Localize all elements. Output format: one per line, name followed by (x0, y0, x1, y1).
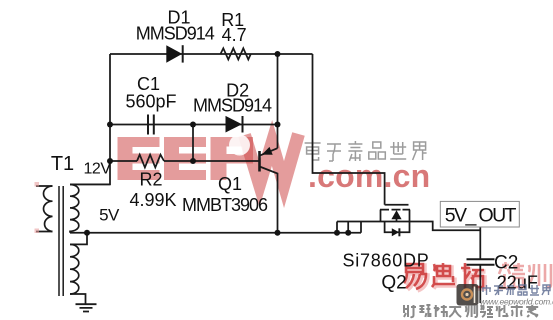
svg-text:5V: 5V (99, 206, 120, 225)
node dot source pin2 (345, 230, 351, 236)
transformer terminal marks pink (35, 182, 40, 187)
mosfet Q2 body arrow (391, 210, 401, 219)
node dot source pin1 (334, 230, 340, 236)
mosfet Q2 channel segments (380, 209, 410, 211)
wire below C2 (479, 265, 481, 304)
transformer T1 primary winding (44, 186, 53, 232)
transistor Q1 base bar (258, 151, 261, 172)
node dot D2 cathode (275, 122, 281, 128)
svg-text:12V: 12V (84, 161, 112, 178)
svg-text:5V_ OUT: 5V_ OUT (445, 205, 517, 227)
svg-text:Q2: Q2 (381, 273, 406, 294)
capacitor C1 (148, 115, 154, 135)
ground (76, 304, 97, 311)
node dot C1-D2 mid (190, 122, 196, 128)
watermark letter W (245, 134, 299, 185)
wire secondary bottom to ground (70, 294, 86, 304)
node dot base row mid (190, 158, 196, 164)
watermark letter E1 (118, 137, 160, 180)
resistor R1 (221, 48, 251, 59)
wire left rail (70, 54, 110, 184)
svg-text:4.99K: 4.99K (129, 190, 176, 210)
transistor Q1 emitter (260, 148, 278, 156)
wire vertical node x277 (277, 54, 279, 148)
mosfet Q2 body diode triangle (392, 228, 399, 236)
watermark EEPW letters (118, 134, 299, 185)
wire secondary top to 12V (70, 183, 110, 185)
wire output to C2 (479, 227, 481, 259)
svg-text:Q1: Q1 (218, 174, 242, 194)
mosfet Q2 drain lead (409, 210, 411, 222)
transistor Q1 emitter arrow (262, 147, 273, 155)
svg-text:MMSD914: MMSD914 (136, 24, 215, 44)
svg-text:Si7860DP: Si7860DP (342, 251, 429, 271)
node dot left rail C1 (107, 122, 113, 128)
wire C1-D2 rail (110, 124, 278, 126)
svg-text:560pF: 560pF (125, 92, 176, 112)
transformer T1 secondary lower winding (70, 244, 79, 294)
wire mosfet axis (337, 222, 480, 231)
transformer T1 secondary upper winding (70, 185, 79, 233)
node dot top rail (275, 51, 281, 57)
svg-text:R2: R2 (139, 170, 162, 190)
node dot 5V tap (84, 230, 90, 236)
node dot collector 5V rail (275, 230, 281, 236)
wire 5V rail (87, 232, 361, 234)
diode D1 triangle (166, 45, 182, 63)
svg-text:C2: C2 (494, 253, 518, 274)
transistor Q1 collector (260, 167, 278, 233)
watermark grey chinese text dianzichanpinshijie (305, 141, 427, 161)
mosfet Q2 body diode cathode bar (398, 228, 400, 236)
node dot left rail 12V (107, 158, 113, 164)
capacitor C2 (467, 259, 495, 264)
mosfet Q2 source lead (380, 210, 382, 222)
svg-text:MMSD914: MMSD914 (193, 96, 272, 116)
watermark dark bottom chinese text shepin (404, 305, 538, 317)
svg-text:T1: T1 (51, 153, 74, 175)
output box 5V_OUT (440, 201, 519, 227)
watermark letter P (211, 137, 254, 180)
watermark bottom logo dark square (457, 284, 479, 306)
transformer T1 primary stubs (36, 186, 53, 232)
svg-text:MMBT3906: MMBT3906 (182, 195, 268, 215)
diode D2 triangle (226, 116, 243, 133)
watermark white circle (229, 135, 250, 156)
resistor R2 (137, 155, 164, 168)
wire node link C1D2 to base row (192, 125, 194, 162)
wire top rail (110, 53, 313, 55)
mosfet Q2 gate bar (385, 204, 409, 206)
watermark letter E2 (164, 137, 206, 180)
diode D2 bar (242, 116, 244, 133)
diode D1 bar (182, 45, 184, 62)
svg-text:.com.cn: .com.cn (308, 158, 430, 194)
mosfet Q2 body diode loop (385, 222, 410, 233)
watermark small grey text line1 (482, 285, 550, 295)
wire source jog pins (337, 222, 361, 233)
circuit group (36, 45, 519, 311)
svg-text:4.7: 4.7 (222, 25, 247, 45)
wire 12V base row (110, 160, 260, 162)
wire gate drive path (313, 54, 385, 205)
mosfet Q2 body stem (396, 219, 398, 222)
transformer T1 core (59, 186, 63, 296)
watermark red yiedituo text bottom (404, 263, 484, 289)
wire 5V tap (70, 233, 87, 245)
